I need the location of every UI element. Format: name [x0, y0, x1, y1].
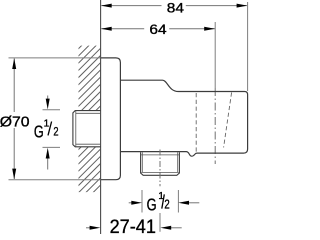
flange (escutcheon) — [101, 58, 121, 180]
outlet nipple (bottom, G 1/2) — [141, 152, 180, 175]
dim Ø70 line — [13, 59, 15, 180]
G 1/2 bottom arrows — [129, 202, 133, 204]
27-41 arrows — [86, 227, 91, 229]
svg-text:27-41: 27-41 — [110, 217, 156, 234]
inlet nipple (through wall) — [73, 111, 101, 147]
svg-text:Ø70: Ø70 — [0, 114, 30, 131]
wall hatching — [60, 0, 120, 240]
G 1/2 left arrows — [47, 96, 49, 101]
dim Ø70 extension line bottom — [9, 179, 101, 181]
outlet nipple centerline below — [159, 150, 161, 187]
27-41 dim extension line (outlet centerline extended) — [159, 213, 161, 232]
G 1/2 bottom dim extension lines — [141, 190, 143, 213]
dim Ø70 extension line top — [9, 57, 101, 59]
svg-text:64: 64 — [149, 23, 166, 38]
dim 84 extension line (right, holder edge extended) — [247, 2, 249, 91]
hidden line: holder/arm joint (dashed vertical) — [195, 93, 197, 153]
dim 64 extension line (holder centerline extended) — [214, 22, 216, 88]
svg-text:G: G — [34, 122, 44, 142]
G 1/2 left dim extension segments — [43, 109, 61, 111]
dim 64 arrowheads — [101, 27, 112, 31]
svg-text:2: 2 — [164, 198, 169, 212]
dim Ø70 arrowheads — [12, 58, 16, 69]
holder centerline (dash-dot) — [214, 88, 216, 164]
dim 84 arrowheads — [101, 4, 112, 8]
svg-text:1: 1 — [44, 118, 50, 129]
wall face line — [100, 0, 102, 234]
svg-text:2: 2 — [53, 125, 58, 139]
svg-text:G: G — [147, 195, 157, 215]
svg-text:84: 84 — [167, 1, 184, 16]
dimension 84 line — [102, 5, 247, 7]
body outline: arm + holder — [120, 80, 247, 156]
dimension 64 line — [102, 28, 215, 30]
hidden line: tapered holder bore (dashed slanted) — [224, 93, 232, 148]
